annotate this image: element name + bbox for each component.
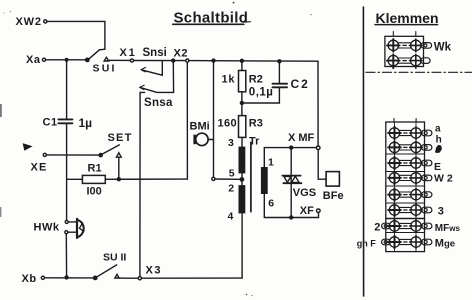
terminal block Wk [385, 32, 424, 67]
svg-text:C1: C1 [43, 117, 58, 129]
wire C1 to HWk [66, 124, 68, 220]
terminal XE [31, 153, 48, 173]
wire X1 to X2 [134, 60, 186, 62]
wire HWk to Xb [65, 234, 67, 278]
wire XW2 to SU I contact [47, 21, 105, 49]
wire XMF to BFe [318, 150, 326, 180]
transformer core [250, 142, 252, 211]
svg-text:SET: SET [108, 132, 133, 144]
capacitor C1 [43, 116, 93, 130]
buzzer BFe [323, 172, 344, 202]
svg-text:0,1µ: 0,1µ [249, 86, 274, 98]
screw terminal row W2 [388, 188, 432, 201]
wire Snsa pivot to X3 [139, 92, 141, 276]
screw terminal row h [388, 141, 432, 154]
svg-text:W 2: W 2 [434, 172, 453, 184]
svg-text:Snsi: Snsi [143, 47, 167, 59]
wire R2 to R3 [241, 92, 243, 116]
wire XE to SET pivot [46, 154, 99, 156]
svg-text:Snsa: Snsa [144, 97, 173, 109]
switch SU I [85, 50, 117, 75]
wire winding join [241, 173, 243, 185]
svg-text:a: a [435, 124, 441, 135]
svg-text:6: 6 [268, 198, 274, 210]
svg-text:SU II: SU II [103, 251, 126, 263]
svg-text:h: h [436, 134, 442, 145]
svg-text:I00: I00 [87, 186, 102, 198]
svg-text:X MF: X MF [288, 132, 315, 144]
node VGS top [289, 145, 293, 149]
svg-text:3: 3 [438, 205, 444, 217]
wire rail to BMi connector [213, 61, 215, 178]
wire X2 to right corner [189, 60, 318, 63]
wire BMi to transformer node 5-2 [215, 178, 239, 180]
svg-text:R2: R2 [249, 73, 263, 85]
wire rail drop to XMF [317, 61, 319, 146]
svg-text:2: 2 [374, 221, 380, 233]
svg-text:Xa: Xa [26, 54, 41, 66]
wire secondary bottom lead [264, 194, 318, 218]
connector BMi circle [212, 177, 215, 180]
switch SET [98, 132, 132, 179]
terminal X1 [120, 47, 137, 62]
node C1 tap [65, 58, 69, 62]
switch SU II [93, 251, 127, 280]
wire Xb to SU II pivot [45, 277, 95, 279]
screw terminal row E [388, 172, 432, 185]
wire C1 line to R1 [67, 178, 83, 180]
node R2 top [240, 59, 244, 63]
svg-text:R3: R3 [249, 117, 263, 129]
transformer primary winding 3-5 [239, 147, 246, 174]
svg-text:gn F: gn F [357, 239, 376, 249]
wire SU I to X1 [109, 59, 131, 61]
wire SU II to X3 [119, 277, 138, 279]
terminal XW2 [16, 16, 47, 28]
svg-text:4: 4 [228, 211, 234, 223]
node HWk junction [64, 275, 68, 279]
wire junction to C2 [242, 88, 280, 103]
svg-text:X1: X1 [120, 47, 137, 59]
terminal X3 [138, 265, 162, 280]
Wk row 2 [387, 54, 430, 68]
scan speckles [0, 2, 312, 297]
diac VGS [282, 176, 316, 199]
svg-text:X2: X2 [174, 47, 189, 59]
wire X2 drop [186, 62, 188, 179]
terminal XF [300, 205, 320, 217]
svg-text:Wk: Wk [434, 42, 452, 54]
svg-text:XW2: XW2 [16, 16, 42, 28]
wire rail to C1 [66, 60, 68, 118]
wire R1 to X2 drop [105, 178, 187, 180]
svg-text:Mge: Mge [435, 238, 455, 250]
node 5-2 [240, 177, 245, 182]
node SET junction [117, 177, 121, 181]
screw terminal row a [388, 127, 432, 140]
resistor R1 [82, 162, 105, 197]
title Klemmen [375, 10, 439, 26]
svg-text:SUI: SUI [93, 63, 117, 75]
Wk row 1 [387, 39, 432, 52]
node R2 R3 junction [240, 101, 244, 105]
screw terminal row MFws [382, 220, 432, 233]
dash-dot separator [366, 71, 472, 73]
panel divider Klemmen [362, 7, 364, 296]
transformer primary winding 2-4 [239, 185, 246, 213]
switch Snsa [140, 63, 174, 109]
terminal Xa [26, 54, 46, 66]
wire rail to R2 [241, 61, 243, 71]
svg-text:Xb: Xb [22, 273, 37, 285]
terminal Xb [22, 273, 45, 285]
wire X3 to transformer pin 4 [141, 277, 242, 279]
screw terminal row row6-3 [388, 204, 432, 217]
node C2 top [277, 59, 281, 63]
screw terminal row Mge [382, 236, 432, 249]
svg-text:1: 1 [268, 157, 274, 169]
svg-text:BFe: BFe [323, 190, 344, 202]
svg-text:XF: XF [300, 205, 314, 217]
node Snsa tap [171, 58, 175, 62]
node rail BMi tap [211, 58, 215, 62]
svg-text:R1: R1 [88, 162, 102, 174]
terminal rows are appended below [382, 127, 432, 249]
wire R3 to winding 3 [241, 137, 243, 146]
switch Snsi [141, 47, 167, 75]
svg-text:160: 160 [218, 117, 238, 129]
capacitor C2 [249, 77, 310, 98]
svg-text:Klemmen: Klemmen [376, 10, 439, 26]
resistor R2 [222, 71, 263, 92]
svg-text:1k: 1k [222, 74, 236, 86]
wire C2 to rail [278, 61, 280, 83]
terminal X2 [174, 47, 189, 62]
svg-text:X3: X3 [146, 265, 162, 277]
label blob [435, 145, 442, 153]
wire secondary top lead [264, 148, 316, 167]
wire winding 4 down [241, 213, 243, 278]
earpiece HWk [34, 219, 84, 238]
microphone BMi [190, 120, 214, 145]
svg-text:XE: XE [31, 162, 48, 174]
svg-text:2: 2 [228, 182, 234, 194]
transformer secondary winding 1-6 [261, 167, 268, 194]
svg-text:E: E [434, 161, 441, 173]
svg-text:5: 5 [229, 168, 235, 180]
screw terminal row blob [388, 157, 432, 170]
svg-text:HWk: HWk [34, 222, 60, 234]
title Schaltbild [173, 10, 251, 27]
svg-text:MFws: MFws [435, 223, 461, 234]
svg-text:VGS: VGS [293, 187, 316, 199]
svg-text:C2: C2 [291, 77, 310, 91]
terminal XMF [288, 132, 320, 150]
arrow mark at XE [23, 144, 31, 150]
wire VGS branch [290, 148, 292, 218]
node VGS bottom [289, 215, 293, 219]
svg-text:1µ: 1µ [79, 116, 93, 130]
wire Xa to SU I pivot [46, 59, 88, 61]
lower terminal block [386, 119, 425, 252]
svg-text:3: 3 [228, 137, 234, 149]
resistor R3 [218, 116, 263, 138]
svg-text:BMi: BMi [190, 120, 210, 132]
